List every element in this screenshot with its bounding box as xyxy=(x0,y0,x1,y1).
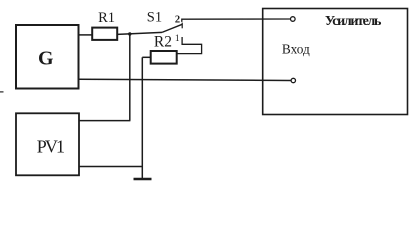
switch S1 contact 2 tick xyxy=(181,23,183,29)
wire PV1 bottom to ground drop xyxy=(79,166,143,168)
amplifier U1 box xyxy=(263,9,408,115)
wire contact 2 hook xyxy=(182,19,291,22)
svg-text:Вход: Вход xyxy=(282,41,310,56)
terminal input lower xyxy=(291,78,295,82)
wire PV1 top terminal xyxy=(79,120,130,122)
terminal input upper xyxy=(291,17,296,22)
switch S1 contact 1 tick and wire to R2 xyxy=(177,37,201,54)
wire G bottom to input lower xyxy=(79,79,292,80)
voltmeter PV1 box xyxy=(16,113,79,175)
svg-text:1: 1 xyxy=(175,34,180,44)
svg-text:2: 2 xyxy=(175,15,180,26)
resistor R1 xyxy=(92,28,117,40)
svg-text:PV1: PV1 xyxy=(37,136,65,156)
svg-text:S1: S1 xyxy=(147,10,162,26)
wire junction down to PV1 top xyxy=(129,34,131,121)
svg-text:R1: R1 xyxy=(98,10,115,26)
svg-text:G: G xyxy=(38,48,54,70)
node junction at R1 right xyxy=(128,32,131,35)
wire G to R1 xyxy=(78,34,93,36)
svg-text:Усилитель: Усилитель xyxy=(325,14,382,29)
resistor R2 xyxy=(151,51,177,64)
wire R2 left to ground drop xyxy=(142,56,150,58)
wire ground drop vertical xyxy=(141,57,143,179)
wire R1 to switch pivot xyxy=(117,32,162,34)
svg-text:R2: R2 xyxy=(154,33,172,50)
switch S1 lever xyxy=(162,24,183,32)
ground xyxy=(134,178,152,181)
generator G box xyxy=(16,25,79,89)
stray scan mark left edge xyxy=(0,91,4,93)
